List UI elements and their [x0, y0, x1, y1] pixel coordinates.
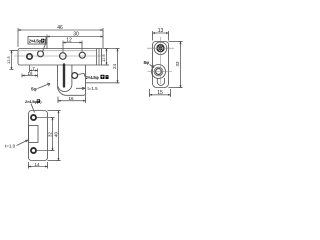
svg-text:13: 13	[158, 28, 164, 34]
strap U outline	[58, 65, 72, 92]
hole H4	[79, 52, 85, 58]
plate inner edge line	[19, 50, 97, 52]
knurled roller outer	[154, 42, 167, 55]
L piece right edge and bottom	[58, 65, 86, 95]
svg-text:14: 14	[34, 162, 40, 167]
svg-text:12: 12	[66, 38, 72, 44]
svg-text:2×4.5φ(: 2×4.5φ(	[25, 99, 39, 104]
dim 12.5 left	[10, 51, 18, 70]
svg-text:32: 32	[47, 131, 52, 137]
knurl hatch	[158, 45, 164, 51]
svg-text:33: 33	[175, 61, 180, 67]
svg-text:16: 16	[27, 71, 33, 76]
dim 13	[153, 31, 169, 41]
dim 30 line	[47, 35, 103, 50]
cutout rect	[29, 126, 39, 143]
dim 12 line	[63, 41, 82, 53]
plate bend lines right	[97, 49, 100, 66]
leader t=1.0	[17, 140, 29, 146]
svg-text:40: 40	[53, 131, 58, 137]
svg-text:12.5: 12.5	[101, 53, 106, 62]
svg-text:2×4.5φ: 2×4.5φ	[86, 75, 99, 80]
dim 7	[30, 66, 38, 73]
dim 16 left	[22, 74, 38, 78]
svg-text:15: 15	[157, 90, 163, 96]
dim 16 bottom	[58, 95, 86, 103]
strike plate outline	[29, 111, 48, 161]
roller centerline h	[147, 47, 174, 49]
dim 15	[150, 89, 171, 97]
svg-text:2×4.5φ(: 2×4.5φ(	[29, 39, 43, 44]
svg-text:46: 46	[57, 25, 63, 31]
hole H2	[38, 51, 44, 57]
svg-text:8φ: 8φ	[144, 60, 151, 65]
svg-text:5φ: 5φ	[31, 87, 38, 92]
label box 2x4.5(sara)	[28, 37, 46, 51]
label 2x4.5 toshi	[86, 75, 109, 80]
leader t=1.5	[76, 87, 85, 89]
plate outline	[18, 49, 102, 66]
svg-text:16: 16	[68, 96, 74, 101]
inner U tab	[157, 78, 164, 85]
strap slot dark	[63, 65, 65, 87]
svg-text:t=1.5: t=1.5	[88, 86, 99, 91]
hole H3	[60, 53, 67, 60]
dim 46 line	[18, 28, 103, 48]
svg-text:12.5: 12.5	[6, 55, 11, 64]
dim 40 plate	[48, 111, 61, 161]
dim 24 right	[102, 49, 120, 83]
plate centerline	[14, 55, 104, 57]
hole C	[72, 73, 78, 79]
lobe outline	[152, 65, 166, 79]
svg-text:t=1.0: t=1.0	[5, 144, 16, 149]
hole B	[31, 148, 36, 153]
dim 14	[29, 162, 48, 169]
lobe centerline h	[148, 71, 173, 73]
dim 32 holes	[37, 118, 55, 151]
body outline	[153, 42, 169, 88]
dim 12.5 right	[102, 49, 110, 66]
leader to toshi label	[78, 74, 86, 77]
label box text	[29, 39, 47, 44]
svg-text:24: 24	[112, 63, 117, 69]
leader 5phi	[38, 83, 51, 88]
inner corner ext line	[86, 82, 120, 84]
hole T	[31, 115, 36, 120]
leader sara	[31, 104, 35, 113]
label 2x4.5 sara	[25, 99, 42, 104]
lobe hole	[156, 69, 162, 75]
lobe centerline v	[160, 37, 162, 84]
hole H1 countersunk	[27, 54, 32, 59]
svg-text:30: 30	[73, 32, 79, 38]
knurled roller inner	[157, 45, 164, 52]
dim 33	[169, 42, 183, 88]
leader 8phi	[150, 65, 155, 68]
lobe mid circle	[154, 67, 163, 76]
